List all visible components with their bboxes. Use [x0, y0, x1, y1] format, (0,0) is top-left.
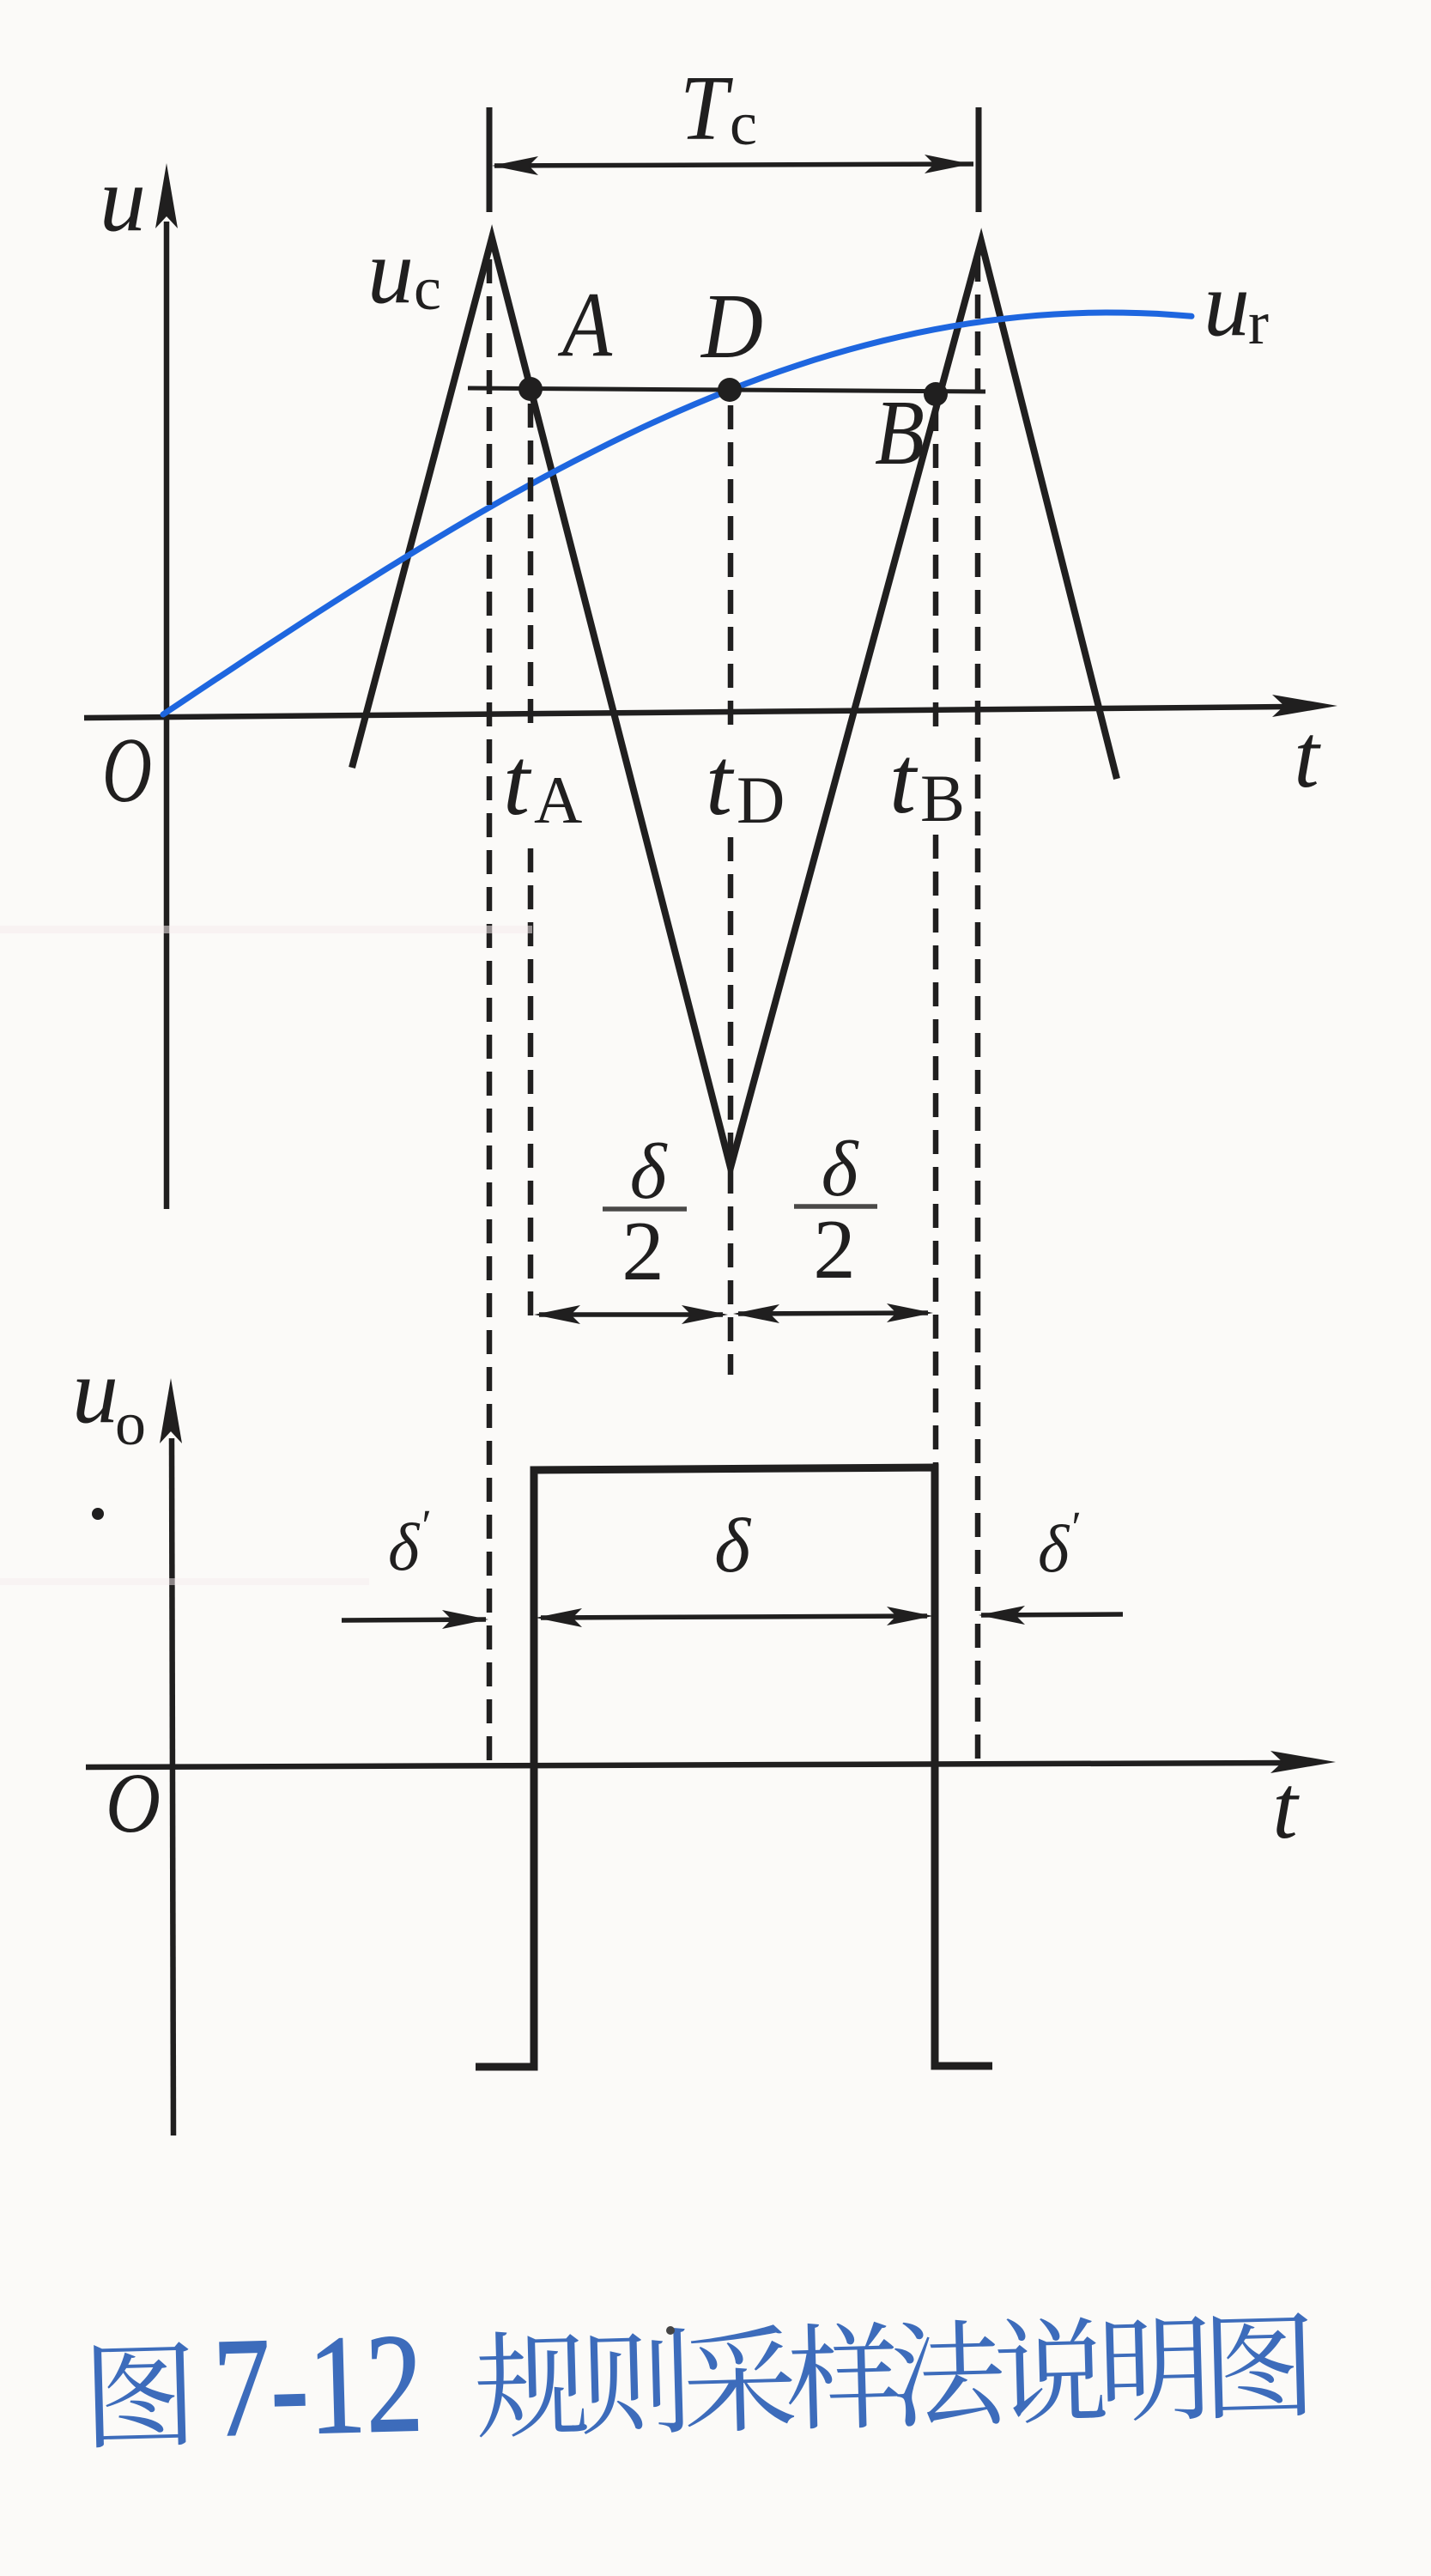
- svg-text:D: D: [737, 762, 785, 837]
- svg-text:O: O: [102, 720, 152, 822]
- svg-text:δ′: δ′: [388, 1502, 430, 1584]
- svg-text:t: t: [1272, 1757, 1300, 1857]
- svg-text:δ: δ: [714, 1504, 752, 1589]
- svg-text:O: O: [106, 1755, 161, 1850]
- sample point B: [924, 382, 948, 406]
- delta dimension arrow: [541, 1616, 927, 1618]
- Tc dimension tick right: [976, 107, 982, 212]
- dashed line at tB (upper part): [933, 407, 939, 738]
- output pulse waveform uo: [476, 1467, 992, 2067]
- t axis (lower graph): [86, 1763, 1286, 1767]
- svg-text:t: t: [1294, 706, 1321, 806]
- svg-text:2: 2: [622, 1205, 664, 1298]
- Tc dimension tick left: [487, 107, 493, 212]
- dashed line at tA (upper part): [528, 404, 534, 734]
- svg-text:u: u: [72, 1340, 118, 1443]
- svg-text:7-12: 7-12: [211, 2304, 425, 2466]
- delta/2 left dimension arrow: [539, 1312, 723, 1317]
- t axis (upper graph): [84, 707, 1288, 718]
- svg-text:A: A: [534, 762, 582, 837]
- caption 图 7-12 规则采样法说明图: [93, 2281, 1311, 2470]
- svg-text:c: c: [730, 89, 757, 158]
- svg-text:B: B: [875, 382, 925, 484]
- svg-text:D: D: [700, 276, 763, 378]
- svg-text:T: T: [680, 58, 733, 160]
- svg-text:t: t: [889, 727, 919, 834]
- dashed line at tD (lower part): [728, 837, 734, 1375]
- svg-text:c: c: [414, 254, 441, 323]
- delta-prime left dimension arrow: [342, 1619, 486, 1620]
- sample point A: [518, 377, 543, 401]
- dashed line at tB (lower part): [933, 835, 939, 1467]
- svg-text:δ′: δ′: [1038, 1504, 1080, 1586]
- dashed line under carrier peak 2: [975, 258, 981, 1761]
- svg-text:B: B: [920, 761, 965, 835]
- delta-prime right dimension arrow: [981, 1614, 1123, 1615]
- delta/2 right dimension arrow: [738, 1313, 928, 1314]
- svg-text:t: t: [706, 729, 735, 835]
- svg-text:A: A: [558, 274, 613, 376]
- reference sine curve u_r: [163, 313, 1191, 714]
- svg-text:t: t: [503, 729, 532, 835]
- Tc dimension arrow: [494, 164, 973, 166]
- sample point D: [718, 378, 742, 402]
- svg-text:r: r: [1248, 289, 1269, 357]
- pink scan streak 1: [0, 926, 532, 933]
- svg-text:u: u: [100, 149, 146, 251]
- dashed line at tD (upper part): [728, 405, 734, 737]
- svg-text:δ: δ: [822, 1125, 859, 1212]
- pink scan streak 2: [0, 1578, 369, 1585]
- dashed line under carrier peak 1: [487, 259, 493, 1762]
- svg-text:o: o: [115, 1389, 146, 1458]
- svg-text:2: 2: [813, 1203, 856, 1297]
- carrier triangle wave u_c: [352, 238, 1117, 1168]
- svg-text:δ: δ: [630, 1127, 668, 1215]
- u axis (upper graph): [164, 222, 170, 1209]
- svg-text:u: u: [1204, 253, 1250, 355]
- svg-text:u: u: [367, 221, 414, 323]
- stray dot: [92, 1508, 104, 1520]
- uo axis (lower graph): [172, 1438, 173, 2136]
- sample level line A-D-B: [468, 388, 985, 392]
- dashed line at tA (lower part): [528, 848, 534, 1315]
- caption speck: [666, 2326, 675, 2335]
